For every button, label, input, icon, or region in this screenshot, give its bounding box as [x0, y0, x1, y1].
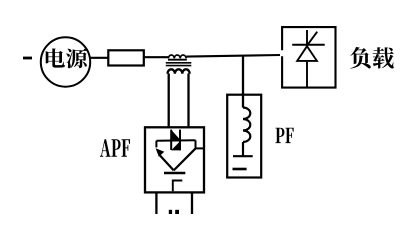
- thyristor top lead: [306, 30, 308, 46]
- wire: secondary left lead to APF: [168, 74, 170, 127]
- transformer core line 2: [166, 65, 192, 67]
- APF internal bus line: [156, 139, 195, 141]
- wire: AC source left terminal dash: [23, 57, 32, 60]
- diode triangle 1 (points right-down): [171, 130, 180, 140]
- capacitor C plate 2: [233, 168, 247, 171]
- wire: APF bottom right lead: [191, 193, 193, 214]
- wire: source to resistor: [90, 57, 109, 59]
- bus right stub down: [195, 140, 197, 148]
- APF active power filter box: [145, 127, 204, 192]
- load box outline (with gap at wire entry): [282, 27, 335, 88]
- capacitor C plate 1: [233, 155, 253, 157]
- wire: secondary right lead to APF: [187, 74, 189, 127]
- wire: transformer to load-box / junction: [186, 55, 280, 57]
- transformer primary baseline bar: [168, 59, 187, 61]
- switch V left branch (arrow shaft): [160, 156, 174, 171]
- diode triangle 2 (points left-down): [171, 141, 180, 150]
- transformer T primary winding (3 arcs): [168, 55, 186, 58]
- wire: resistor to transformer: [144, 56, 169, 58]
- AC source circle (电源): [41, 37, 90, 86]
- inductor L in PF branch: [243, 108, 250, 143]
- bus left stub down: [155, 141, 157, 148]
- thyristor bottom lead: [306, 62, 308, 87]
- switch arrow head (pointing up-left): [156, 148, 165, 157]
- thyristor gate line: [307, 32, 317, 46]
- wire: inductor to capacitor: [242, 142, 244, 156]
- emitter bar under V: [164, 172, 185, 175]
- thyristor cathode bar: [292, 44, 325, 46]
- DC-link element stub (cut off at image bottom): [169, 210, 172, 214]
- label 负载 (load): [350, 47, 393, 69]
- antiparallel pair vertical B (diode bar): [179, 130, 181, 151]
- label PF: [275, 128, 293, 143]
- transformer secondary winding (3 arcs): [168, 69, 190, 74]
- label 电源 (power source): [46, 48, 87, 68]
- PF passive filter box: [227, 95, 261, 178]
- label APF: [100, 139, 130, 156]
- antiparallel pair vertical A (diode bar): [170, 130, 172, 150]
- thyristor triangle (anode): [297, 46, 317, 61]
- stub to APF box right edge: [195, 147, 205, 149]
- resistor R (series impedance): [108, 50, 144, 65]
- transformer core line 1: [166, 62, 192, 64]
- gamma corner mark: [173, 181, 183, 192]
- wire: junction to PF filter branch: [242, 55, 244, 107]
- wire: APF bottom left lead: [155, 193, 157, 214]
- switch V right branch: [174, 148, 196, 170]
